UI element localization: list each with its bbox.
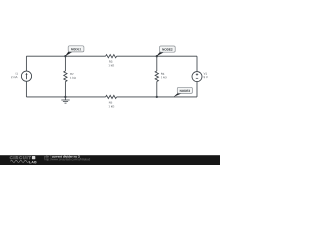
wire left rail lower — [25, 81, 27, 97]
ground symbol stem — [64, 97, 66, 100]
wire bottom segment right of R5 — [117, 96, 197, 98]
label V1 designator — [204, 73, 207, 75]
resistor R5 zigzag — [106, 95, 117, 98]
resistor R4 zigzag — [155, 71, 158, 81]
wire right rail upper — [196, 56, 198, 71]
node NODE3 text — [180, 90, 190, 92]
label R3 value 1 kOhm — [109, 64, 114, 66]
label V1 value 5 V — [204, 76, 208, 78]
node NODE1 box — [68, 46, 84, 52]
junction node at R4 bottom — [156, 96, 158, 98]
label R2 designator — [70, 73, 73, 75]
footer logo cursor block — [32, 156, 35, 159]
label R4 value 1 kOhm — [161, 76, 167, 78]
resistor R3 zigzag — [106, 55, 117, 58]
junction node at R2 bottom / ground — [64, 96, 66, 98]
label R5 designator — [109, 102, 112, 104]
wire top segment left of R3 — [26, 55, 105, 57]
voltage source V1 circle — [192, 72, 202, 82]
label R3 designator — [109, 61, 112, 63]
wire right rail lower — [196, 82, 198, 97]
junction node at R2 top — [64, 55, 66, 57]
node NODE2 pointer — [156, 52, 164, 56]
wire top segment right of R3 — [117, 55, 197, 57]
label R5 value 1 kOhm — [109, 105, 114, 107]
current source I1 arrow shaft — [26, 74, 28, 79]
footer url text (ends 90.2) — [44, 158, 90, 161]
node NODE2 box — [160, 46, 176, 52]
footer title owner text p8n / — [44, 155, 50, 158]
node NODE2 text — [162, 48, 172, 50]
footer bar — [0, 155, 220, 165]
resistor R2 zigzag — [64, 71, 67, 82]
label R2 value 1 kOhm — [70, 77, 76, 79]
label I1 value 2 mA — [11, 76, 17, 78]
wire R4 bottom lead — [156, 82, 158, 97]
current source I1 circle — [21, 71, 31, 81]
node NODE3 pointer — [174, 93, 182, 97]
wire R2 bottom lead — [64, 82, 66, 97]
voltage source V1 minus sign — [196, 77, 198, 79]
junction node at R4 top — [156, 55, 158, 57]
footer logo CIRCUIT (ends 34.7) — [10, 156, 31, 159]
wire R4 top lead — [156, 56, 158, 71]
current source I1 arrowhead — [25, 73, 27, 75]
label R4 designator — [161, 73, 164, 75]
node NODE1 pointer — [65, 52, 73, 57]
ground symbol bars — [61, 100, 69, 103]
wire bottom segment left of R5 — [26, 96, 105, 98]
label I1 designator — [16, 73, 18, 75]
footer logo sine wave — [10, 160, 28, 162]
node NODE1 text — [71, 48, 81, 50]
wire R2 top lead — [64, 56, 66, 71]
node NODE3 box — [177, 87, 192, 93]
wire left rail upper — [25, 56, 27, 71]
voltage source V1 plus sign — [196, 73, 198, 75]
footer logo LAB (ends 36.6) — [29, 161, 36, 163]
footer title name text (ends 79.7) — [52, 155, 80, 157]
